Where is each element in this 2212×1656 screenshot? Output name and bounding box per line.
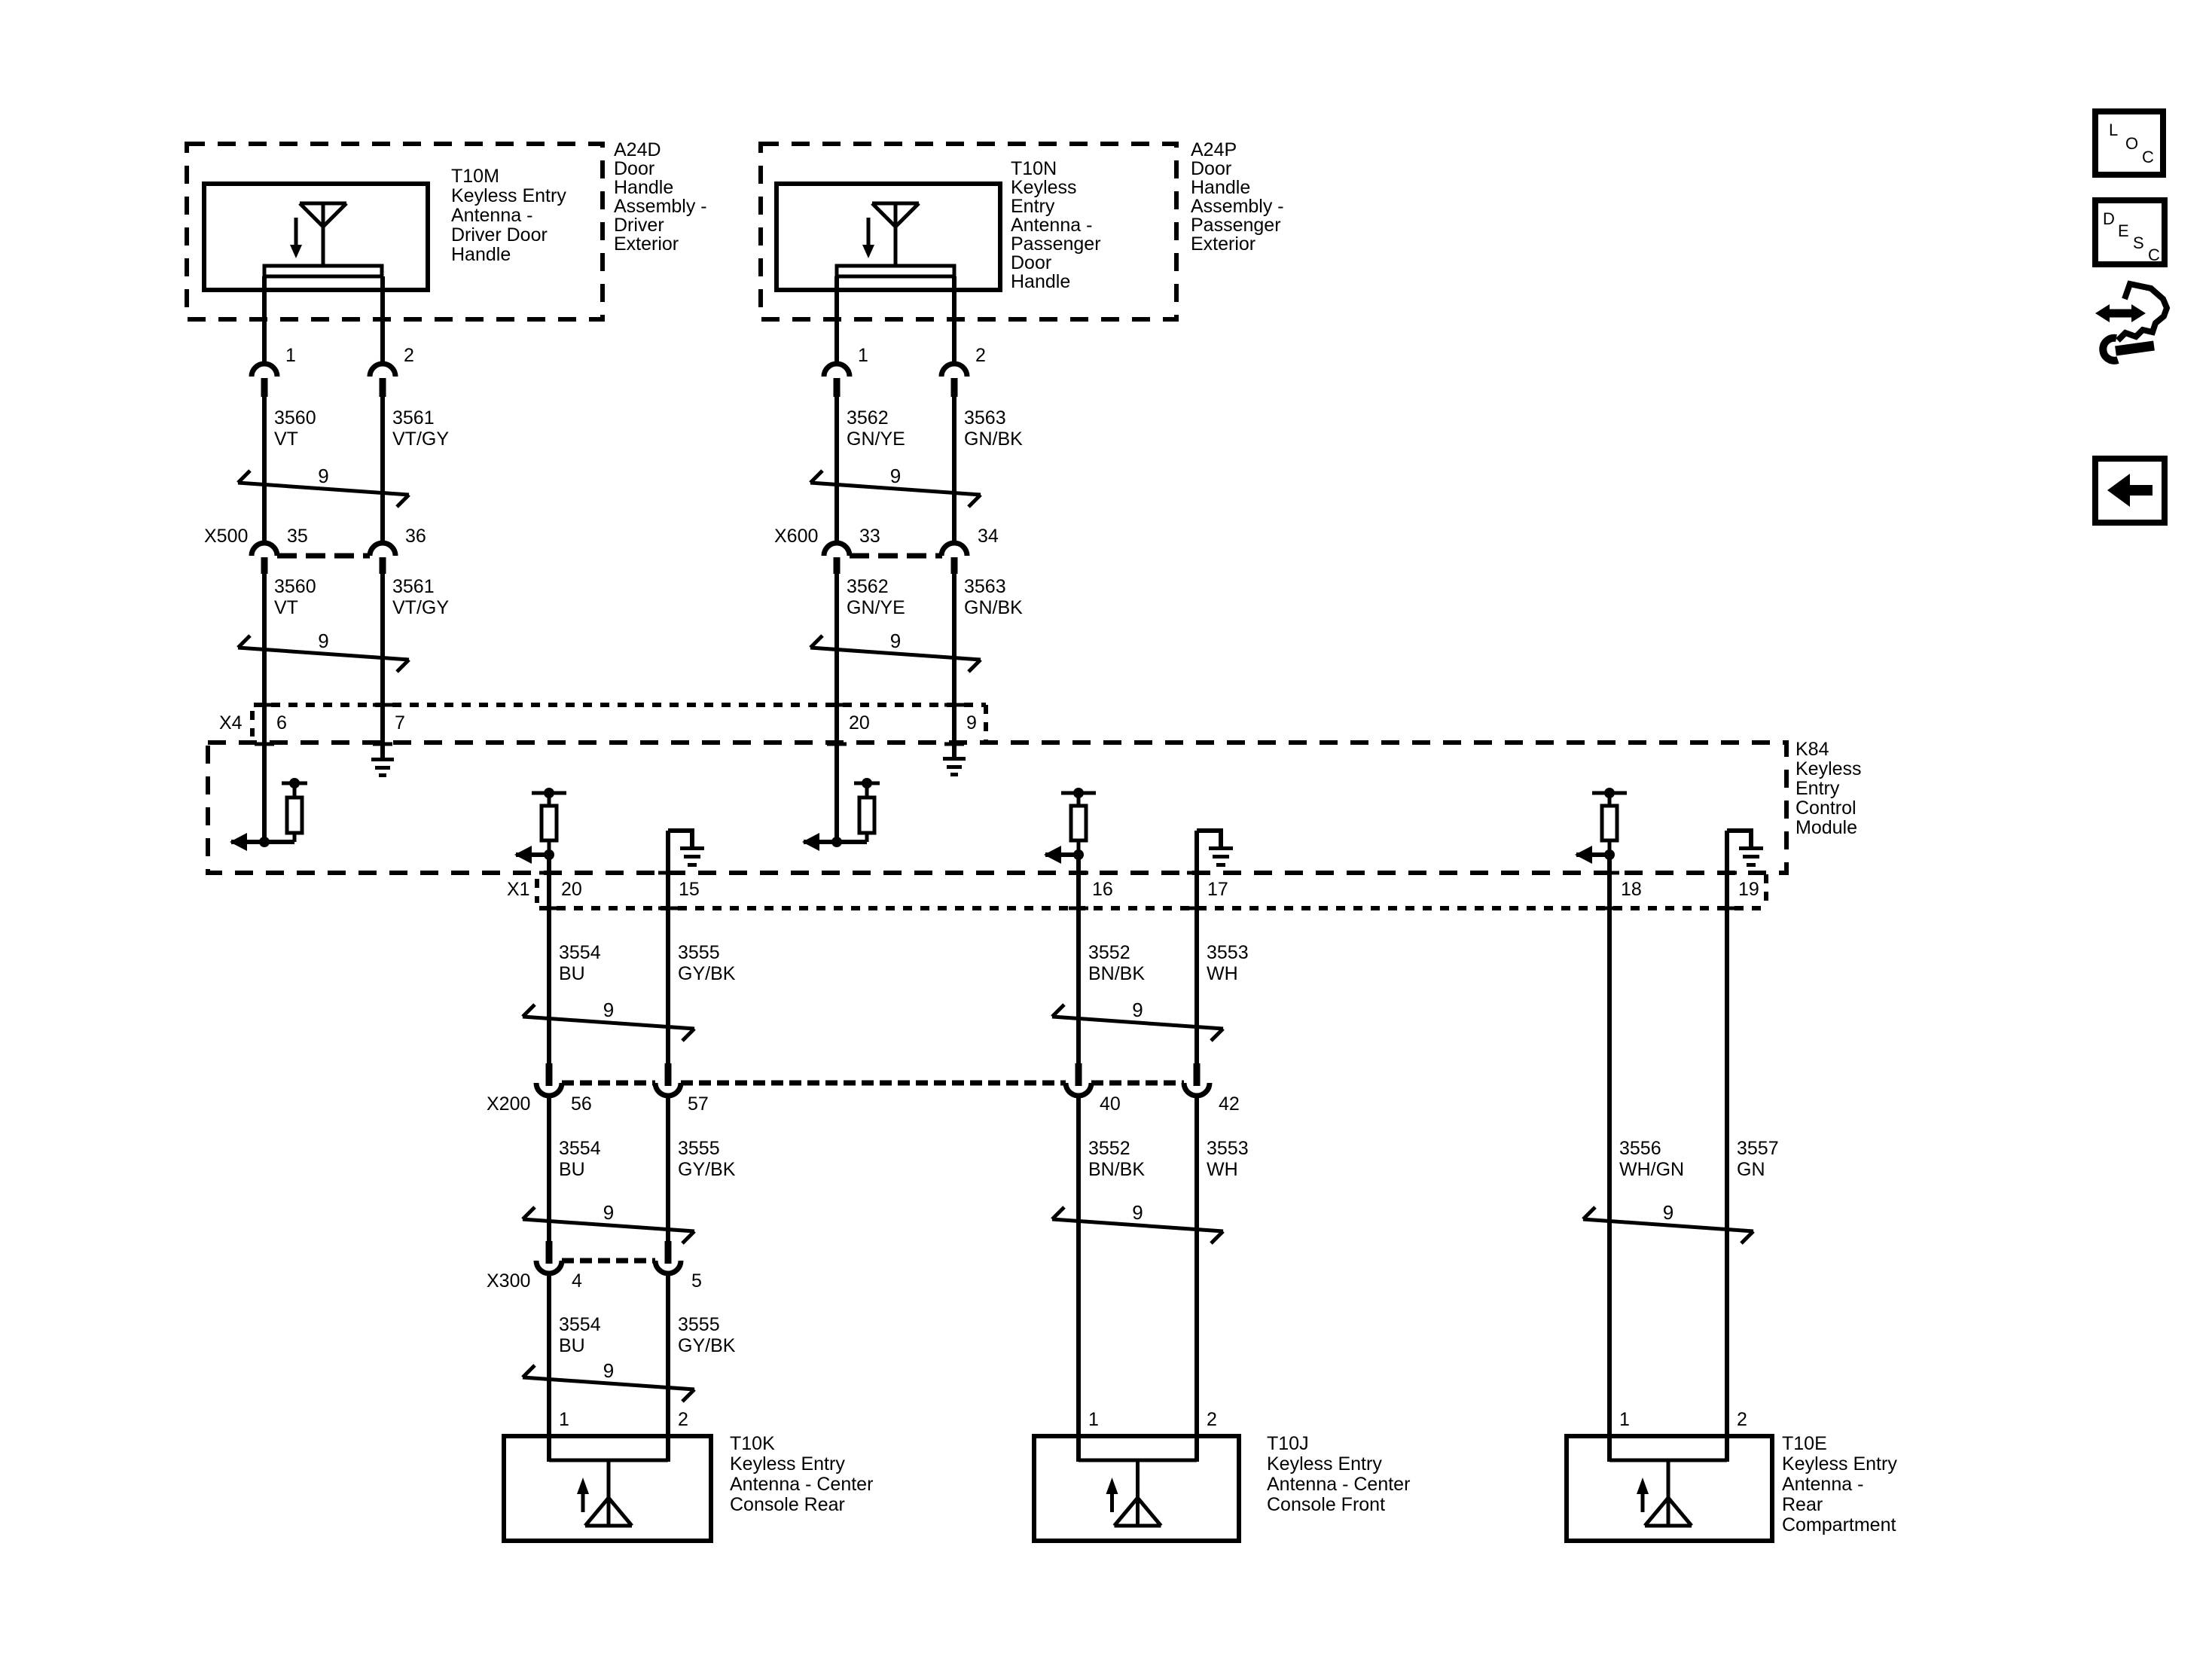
wire label 3556 WH/GN (row 2) (1619, 1138, 1684, 1180)
svg-text:VT/GY: VT/GY (392, 428, 449, 450)
svg-text:E: E (2118, 221, 2129, 240)
svg-text:3555: 3555 (678, 1314, 720, 1335)
wire 3560 mid segment (262, 397, 267, 544)
wire label 3554 BU (row 1) (559, 942, 601, 984)
wire label 3557 GN (row 2) (1737, 1138, 1779, 1180)
svg-text:2: 2 (1737, 1409, 1747, 1430)
svg-text:VT/GY: VT/GY (392, 597, 449, 618)
svg-text:BU: BU (559, 1335, 585, 1356)
receive arrow T10E (1637, 1478, 1649, 1512)
svg-text:Passenger: Passenger (1011, 233, 1101, 255)
wire label 3560 VT (lower) (274, 576, 316, 618)
svg-text:20: 20 (561, 879, 582, 900)
pin tick X4 at x=508 (373, 703, 392, 707)
connector pin 2 terminal at x=1267 (941, 364, 967, 377)
svg-text:3552: 3552 (1088, 1138, 1130, 1159)
svg-text:BN/BK: BN/BK (1088, 1159, 1145, 1180)
twisted pair symbol (3554/3555 row 1) (523, 999, 694, 1041)
wire label 3553 WH (row 2) (1207, 1138, 1249, 1180)
svg-text:1: 1 (1088, 1409, 1099, 1430)
svg-text:Keyless Entry: Keyless Entry (1267, 1453, 1382, 1475)
svg-text:X500: X500 (204, 526, 248, 547)
wire label 3561 VT/GY (upper) (392, 407, 449, 450)
wire label 3555 GY/BK (row 3) (678, 1314, 736, 1356)
svg-text:3561: 3561 (392, 407, 435, 428)
svg-text:9: 9 (1132, 1201, 1143, 1224)
svg-text:3561: 3561 (392, 576, 435, 597)
svg-text:Entry: Entry (1796, 778, 1840, 799)
svg-text:Handle: Handle (1191, 177, 1250, 198)
svg-text:3554: 3554 (559, 1314, 601, 1335)
svg-text:Console Front: Console Front (1267, 1494, 1385, 1515)
svg-text:3555: 3555 (678, 942, 720, 963)
svg-text:33: 33 (859, 526, 880, 547)
svg-text:3554: 3554 (559, 1138, 601, 1159)
svg-text:3560: 3560 (274, 576, 316, 597)
svg-text:Keyless Entry: Keyless Entry (1782, 1453, 1897, 1475)
svg-text:9: 9 (966, 712, 977, 733)
svg-text:K84: K84 (1796, 739, 1829, 760)
pin tick module bottom at x=729 (539, 871, 559, 875)
antenna drive resistor (module) at pin wire x=2137 (1592, 788, 1627, 855)
svg-text:3554: 3554 (559, 942, 601, 963)
antenna element plate T10K (549, 1459, 668, 1462)
label A24D (614, 139, 707, 255)
svg-text:Handle: Handle (1011, 271, 1070, 292)
svg-text:Handle: Handle (451, 244, 511, 265)
wire 3563 upper segment (952, 276, 956, 364)
signal arrow (module) at x=1432 (1044, 846, 1079, 864)
svg-text:3557: 3557 (1737, 1138, 1779, 1159)
svg-text:6: 6 (276, 712, 287, 733)
pin tick module bottom at x=1432 (1069, 871, 1088, 875)
signal arrow (module) at x=351 (230, 833, 264, 851)
svg-text:9: 9 (318, 630, 328, 652)
twisted pair symbol (3554/3555 row 2) (523, 1201, 694, 1243)
wire label 3554 BU (row 3) (559, 1314, 601, 1356)
label T10J (1267, 1433, 1410, 1515)
module dashed box K84 (208, 743, 1786, 873)
svg-text:3556: 3556 (1619, 1138, 1661, 1159)
pin tick module top at x=508 (373, 743, 392, 746)
wire 3555 segment X300-T10K (666, 1273, 670, 1462)
svg-text:56: 56 (571, 1093, 592, 1115)
dashed assembly box A24D (187, 144, 603, 319)
svg-text:Module: Module (1796, 817, 1857, 838)
svg-text:9: 9 (1132, 999, 1143, 1021)
svg-text:9: 9 (603, 1201, 614, 1224)
svg-text:Keyless: Keyless (1011, 177, 1077, 198)
svg-text:Exterior: Exterior (614, 233, 679, 255)
twisted pair symbol (passenger pair, lower) (810, 630, 981, 672)
wire 3557 segment X1-T10E (1725, 831, 1729, 1462)
svg-text:9: 9 (890, 630, 901, 652)
svg-text:9: 9 (603, 1359, 614, 1382)
pin tick X1 bottom at x=2293 (1717, 907, 1737, 910)
wire 3561 mid segment (380, 397, 385, 544)
label A24P (1191, 139, 1284, 255)
wire label 3555 GY/BK (row 1) (678, 942, 736, 984)
wire label 3552 BN/BK (row 2) (1088, 1138, 1145, 1180)
svg-text:O: O (2125, 134, 2138, 153)
wire 3563 lower segment (952, 574, 956, 744)
svg-text:34: 34 (978, 526, 999, 547)
component box T10M (204, 184, 428, 290)
wire 3561 upper segment (380, 276, 385, 364)
twisted pair symbol (3552/3553 row 2) (1052, 1201, 1223, 1243)
svg-text:Antenna -: Antenna - (1011, 215, 1092, 236)
inline connector X200 (536, 1063, 1210, 1096)
svg-text:2: 2 (404, 345, 414, 366)
svg-text:Door: Door (1191, 158, 1231, 179)
svg-text:57: 57 (688, 1093, 709, 1115)
wire 3560 upper segment (262, 276, 267, 364)
svg-text:Door: Door (614, 158, 654, 179)
icon back arrow button (2095, 459, 2165, 523)
antenna drive resistor (module) at pin wire x=351 (282, 778, 307, 842)
svg-text:Rear: Rear (1782, 1494, 1823, 1515)
antenna symbol T10N (872, 203, 919, 266)
ground (module) pin 15 (668, 828, 704, 867)
wire label 3560 VT (upper) (274, 407, 316, 450)
inline connector X300 (536, 1241, 681, 1273)
wire 3561 lower segment (380, 574, 385, 744)
antenna element plate T10M (264, 266, 382, 276)
svg-text:GN/YE: GN/YE (847, 597, 905, 618)
svg-text:3562: 3562 (847, 576, 889, 597)
icon wiring/repair (arrows and wrench) (2095, 284, 2167, 361)
antenna drive resistor (module) at pin wire x=1432 (1061, 788, 1096, 855)
twisted pair symbol (driver pair, lower) (238, 630, 409, 672)
svg-text:C: C (2142, 148, 2154, 166)
svg-text:T10M: T10M (451, 166, 499, 187)
wire 3562 lower segment (834, 574, 839, 842)
junction node at x=1432 (1073, 849, 1084, 860)
svg-text:15: 15 (679, 879, 700, 900)
wire 3562 mid segment (834, 397, 839, 544)
label T10M (451, 166, 566, 265)
svg-text:3553: 3553 (1207, 1138, 1249, 1159)
svg-text:Keyless Entry: Keyless Entry (451, 185, 566, 206)
pin tick module bottom at x=2137 (1600, 871, 1619, 875)
svg-text:40: 40 (1100, 1093, 1121, 1115)
pin tick X4 at x=351 (255, 703, 274, 707)
svg-text:3555: 3555 (678, 1138, 720, 1159)
wire label 3563 GN/BK (upper) (964, 407, 1023, 450)
svg-text:1: 1 (285, 345, 296, 366)
svg-text:T10K: T10K (730, 1433, 775, 1454)
svg-text:Driver Door: Driver Door (451, 224, 548, 246)
pin tick X1 bottom at x=2137 (1600, 907, 1619, 910)
wire 3563 mid segment (952, 397, 956, 544)
junction node at x=1111 (831, 837, 842, 847)
transmit arrow T10M (290, 218, 302, 258)
svg-text:1: 1 (858, 345, 868, 366)
antenna drive resistor (module) at pin wire x=729 (532, 788, 566, 855)
wire 3554 segment X1-X200 (547, 855, 551, 1063)
svg-text:BU: BU (559, 963, 585, 984)
signal arrow (module) at x=1111 (802, 833, 837, 851)
svg-text:19: 19 (1738, 879, 1759, 900)
svg-text:Passenger: Passenger (1191, 215, 1281, 236)
wire 3560 lower segment (262, 574, 267, 842)
junction node at x=2137 (1604, 849, 1615, 860)
antenna element plate T10N (837, 266, 954, 276)
connector band X4 label separator (250, 711, 255, 737)
svg-text:Keyless Entry: Keyless Entry (730, 1453, 845, 1475)
svg-text:42: 42 (1219, 1093, 1240, 1115)
pin tick X1 bottom at x=1589 (1187, 907, 1207, 910)
svg-text:C: C (2148, 246, 2160, 264)
svg-text:L: L (2109, 120, 2118, 139)
component box T10E (1567, 1436, 1772, 1541)
wire label 3562 GN/YE (lower) (847, 576, 905, 618)
svg-text:GN/BK: GN/BK (964, 428, 1023, 450)
twisted pair symbol (passenger pair, upper) (810, 465, 981, 507)
antenna symbol T10J (1115, 1462, 1161, 1526)
connector pin 1 terminal at x=351 (252, 364, 277, 377)
svg-text:VT: VT (274, 428, 298, 450)
svg-text:Compartment: Compartment (1782, 1514, 1896, 1536)
svg-text:9: 9 (603, 999, 614, 1021)
wire 3553 segment X1-X200 (1194, 831, 1199, 1063)
receive arrow T10K (577, 1478, 589, 1512)
svg-text:X1: X1 (507, 879, 530, 900)
svg-text:1: 1 (559, 1409, 569, 1430)
wire 3553 segment X200-T10J (1194, 1096, 1199, 1462)
wire 3555 segment X1-X200 (666, 831, 670, 1063)
icon LOC button (2095, 111, 2163, 175)
svg-text:BN/BK: BN/BK (1088, 963, 1145, 984)
svg-text:3562: 3562 (847, 407, 889, 428)
twisted pair symbol (driver pair, upper) (238, 465, 409, 507)
twisted pair symbol (3556/3557) (1583, 1201, 1753, 1243)
dashed assembly box A24P (761, 144, 1176, 319)
svg-text:18: 18 (1621, 879, 1642, 900)
svg-text:GY/BK: GY/BK (678, 1335, 736, 1356)
wire 3552 segment X1-X200 (1076, 855, 1081, 1063)
pin tick module top at x=1111 (827, 743, 847, 746)
svg-text:Assembly -: Assembly - (614, 196, 707, 217)
connector pin 1 terminal at x=1111 (824, 364, 850, 377)
svg-text:Entry: Entry (1011, 196, 1055, 217)
wire 3554 segment X300-T10K (547, 1273, 551, 1462)
svg-text:9: 9 (890, 465, 901, 487)
svg-text:WH: WH (1207, 963, 1238, 984)
ground (module) pin 9 (943, 744, 966, 776)
svg-text:1: 1 (1619, 1409, 1630, 1430)
antenna element plate T10J (1079, 1459, 1197, 1462)
pin tick X4 at x=1267 (944, 703, 964, 707)
wire 3556 segment X1-T10E (1607, 855, 1612, 1462)
pin tick module top at x=351 (255, 743, 274, 746)
receive arrow T10J (1106, 1478, 1118, 1512)
inline connector X600 (824, 543, 967, 574)
wire label 3553 WH (row 1) (1207, 942, 1249, 984)
svg-text:Control: Control (1796, 798, 1857, 819)
svg-text:3563: 3563 (964, 576, 1006, 597)
icon DESC button (2095, 200, 2165, 264)
svg-text:A24P: A24P (1191, 139, 1237, 160)
svg-text:Console Rear: Console Rear (730, 1494, 845, 1515)
junction node at x=351 (259, 837, 270, 847)
antenna drive resistor (module) at pin wire x=1111 (854, 778, 880, 842)
antenna element plate T10E (1609, 1459, 1727, 1462)
svg-text:Door: Door (1011, 252, 1051, 273)
svg-text:Antenna -: Antenna - (1782, 1474, 1863, 1495)
wire junction to resistor (264, 840, 294, 844)
svg-text:5: 5 (691, 1270, 702, 1292)
svg-text:9: 9 (1663, 1201, 1673, 1224)
component box T10K (504, 1436, 711, 1541)
label K84 (1796, 739, 1862, 838)
wire label 3563 GN/BK (lower) (964, 576, 1023, 618)
pin tick X1 bottom at x=887 (658, 907, 678, 910)
junction node at x=729 (544, 849, 554, 860)
svg-text:3560: 3560 (274, 407, 316, 428)
wire 3562 upper segment (834, 276, 839, 364)
pin tick module top at x=1267 (944, 743, 964, 746)
pin tick X1 bottom at x=729 (539, 907, 559, 910)
svg-text:3553: 3553 (1207, 942, 1249, 963)
svg-text:GN: GN (1737, 1159, 1765, 1180)
component box T10N (776, 184, 1000, 290)
wire label 3562 GN/YE (upper) (847, 407, 905, 450)
transmit arrow T10N (862, 218, 874, 258)
svg-text:3563: 3563 (964, 407, 1006, 428)
svg-text:3552: 3552 (1088, 942, 1130, 963)
inline connector X500 (252, 543, 395, 574)
svg-text:GN/YE: GN/YE (847, 428, 905, 450)
svg-text:7: 7 (395, 712, 405, 733)
svg-text:9: 9 (318, 465, 328, 487)
svg-text:20: 20 (849, 712, 870, 733)
svg-text:36: 36 (405, 526, 426, 547)
svg-text:GY/BK: GY/BK (678, 1159, 736, 1180)
svg-text:T10N: T10N (1011, 158, 1057, 179)
svg-text:2: 2 (1207, 1409, 1217, 1430)
svg-text:Antenna -: Antenna - (451, 205, 532, 226)
pin tick module bottom at x=887 (658, 871, 678, 875)
svg-text:X600: X600 (774, 526, 818, 547)
connector band X1 right dotted edge (1764, 874, 1768, 908)
signal arrow (module) at x=2137 (1575, 846, 1609, 864)
svg-text:Exterior: Exterior (1191, 233, 1256, 255)
wire label 3561 VT/GY (lower) (392, 576, 449, 618)
wire label 3555 GY/BK (row 2) (678, 1138, 736, 1180)
svg-text:T10J: T10J (1267, 1433, 1309, 1454)
label T10N (1011, 158, 1101, 292)
pin tick module bottom at x=1589 (1187, 871, 1207, 875)
wire label 3552 BN/BK (row 1) (1088, 942, 1145, 984)
antenna symbol T10M (300, 203, 346, 266)
svg-text:Antenna - Center: Antenna - Center (730, 1474, 873, 1495)
svg-text:2: 2 (975, 345, 986, 366)
wire 3555 segment X200-X300 (666, 1096, 670, 1241)
pin tick X1 bottom at x=1432 (1069, 907, 1088, 910)
svg-text:17: 17 (1207, 879, 1228, 900)
svg-text:Driver: Driver (614, 215, 664, 236)
svg-text:T10E: T10E (1782, 1433, 1827, 1454)
svg-text:WH/GN: WH/GN (1619, 1159, 1684, 1180)
twisted pair symbol (3552/3553 row 1) (1052, 999, 1223, 1041)
svg-text:Handle: Handle (614, 177, 673, 198)
connector band X1 bottom dotted line (539, 906, 1766, 910)
svg-text:Keyless: Keyless (1796, 758, 1862, 779)
svg-text:D: D (2103, 209, 2115, 228)
connector band X1 label separator (535, 879, 539, 903)
svg-text:X300: X300 (487, 1270, 530, 1292)
wire 3552 segment X200-T10J (1076, 1096, 1081, 1462)
connector band X4 right dotted edge (984, 705, 988, 743)
svg-text:35: 35 (287, 526, 308, 547)
label T10K (730, 1433, 873, 1515)
label T10E (1782, 1433, 1897, 1536)
wire label 3554 BU (row 2) (559, 1138, 601, 1180)
component box T10J (1034, 1436, 1239, 1541)
wire junction to resistor (837, 840, 867, 844)
svg-text:2: 2 (678, 1409, 688, 1430)
svg-text:VT: VT (274, 597, 298, 618)
connector band X4 top dotted line (254, 703, 986, 707)
antenna symbol T10K (585, 1462, 632, 1526)
ground (module) pin 17 (1197, 828, 1233, 867)
svg-text:A24D: A24D (614, 139, 661, 160)
connector pin 2 terminal at x=508 (370, 364, 395, 377)
pin tick X4 at x=1111 (827, 703, 847, 707)
svg-text:WH: WH (1207, 1159, 1238, 1180)
svg-text:GY/BK: GY/BK (678, 963, 736, 984)
antenna symbol T10E (1645, 1462, 1692, 1526)
wire 3554 segment X200-X300 (547, 1096, 551, 1241)
svg-text:BU: BU (559, 1159, 585, 1180)
svg-text:Antenna - Center: Antenna - Center (1267, 1474, 1410, 1495)
ground (module) pin 19 (1727, 828, 1763, 867)
svg-text:X200: X200 (487, 1093, 530, 1115)
ground (module) pin 7 (371, 744, 394, 777)
signal arrow (module) at x=729 (514, 846, 549, 864)
svg-text:GN/BK: GN/BK (964, 597, 1023, 618)
twisted pair symbol (3554/3555 row 3) (523, 1359, 694, 1401)
svg-text:X4: X4 (219, 712, 243, 733)
svg-text:S: S (2133, 233, 2144, 252)
svg-text:Assembly -: Assembly - (1191, 196, 1284, 217)
svg-text:16: 16 (1092, 879, 1113, 900)
pin tick module bottom at x=2293 (1717, 871, 1737, 875)
svg-text:4: 4 (572, 1270, 582, 1292)
